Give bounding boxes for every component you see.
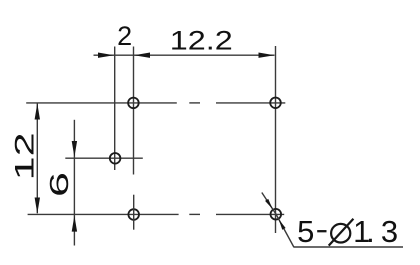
hole bottom-left <box>128 209 139 220</box>
svg-text:2: 2 <box>117 21 132 51</box>
leader arrowhead upper (pointing at hole) <box>265 199 273 209</box>
leader arrowhead lower (pointing at hole) <box>279 219 286 230</box>
bottom row center line <box>28 213 285 215</box>
hole bottom-right <box>271 209 282 220</box>
vertical axis line through bottom-left hole <box>133 195 135 230</box>
arrowhead of dim 6 at bottom row (pointing up) <box>72 216 77 232</box>
label hyphen <box>317 230 326 232</box>
leader line to bottom-right hole <box>262 193 294 248</box>
leader underline <box>294 246 404 248</box>
dimension line 6 vertical <box>73 120 75 246</box>
hole middle <box>110 153 121 164</box>
arrowhead left of dim 2 (pointing right) <box>98 53 114 58</box>
svg-text:6: 6 <box>44 172 74 197</box>
arrowhead top of dim 12 (pointing up) <box>35 103 40 119</box>
svg-text:12: 12 <box>9 132 39 180</box>
arrowhead right of dim 2 / left of 12.2 (pointing left) <box>134 53 150 58</box>
diameter symbol circle <box>331 224 350 243</box>
arrowhead of dim 6 at middle row (pointing down) <box>72 141 77 157</box>
dimension line for 2 and 12.2 <box>94 54 275 56</box>
svg-text:5: 5 <box>297 214 314 249</box>
hole top-left <box>128 98 139 109</box>
extension line right of dim 2 <box>133 47 135 175</box>
svg-text:12.2: 12.2 <box>170 26 233 56</box>
diameter symbol slash <box>329 219 354 246</box>
middle row center line <box>65 157 143 159</box>
arrowhead right end of 12.2 (pointing right) <box>259 53 275 58</box>
top row center line <box>26 102 285 104</box>
extension line right of 12.2 through right holes <box>275 46 277 233</box>
dimension line 12 vertical <box>36 104 38 214</box>
arrowhead bottom of dim 12 (pointing down) <box>35 198 40 214</box>
extension line left of dim 2 <box>114 47 116 171</box>
hole top-right <box>270 98 281 109</box>
